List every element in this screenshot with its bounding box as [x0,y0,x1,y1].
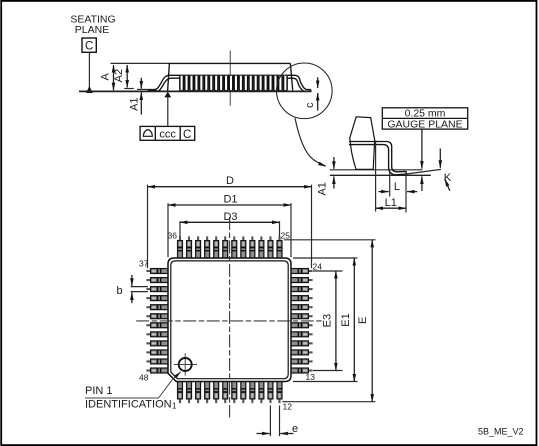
bottom row pins 1..12 [178,381,282,404]
datum C triangle [86,86,93,93]
svg-text:L1: L1 [385,197,397,209]
side view centerline [229,51,231,106]
svg-text:b: b [117,285,123,297]
dimension L [389,172,391,197]
dimension b [131,286,148,288]
flatness symbol [143,130,153,137]
right lead foot cap [310,90,312,92]
detail lead top line [349,142,406,172]
detail seating plane [330,174,431,176]
gauge 0.25 stem [421,129,423,169]
detail lead tip cap [405,171,407,174]
side view body left edge [168,63,170,91]
svg-text:GAUGE PLANE: GAUGE PLANE [387,119,462,131]
svg-text:C: C [85,41,93,53]
lead row top line [168,74,295,76]
detail body cross-section [350,117,375,170]
svg-text:PLANE: PLANE [75,24,109,36]
svg-text:A1: A1 [317,182,329,195]
dimension e [269,406,271,437]
detail lead bottom line [349,145,406,175]
right gull-wing lead top surface [295,75,311,89]
svg-text:12: 12 [283,402,293,412]
lead row shoulder line [171,77,294,79]
dimension A1 detail [333,157,335,169]
svg-text:36: 36 [168,231,178,241]
side view leads comb [180,76,287,91]
side view body top [169,62,291,64]
svg-text:e: e [292,423,298,435]
svg-text:PIN 1: PIN 1 [85,385,113,397]
dimension A [113,65,115,90]
left row pins 37..48 [146,269,169,373]
svg-text:A2: A2 [113,69,125,82]
svg-text:E: E [357,317,369,324]
svg-text:E1: E1 [340,313,352,326]
dimension D1 [167,203,169,257]
dimension E3 [313,270,343,272]
svg-text:A1: A1 [128,97,140,110]
svg-text:1: 1 [172,401,177,410]
dimension D3 [179,221,181,237]
dimension E [284,239,376,241]
side view body right edge [290,63,292,90]
dimension E1 [293,257,358,259]
datum C stem [88,52,90,87]
svg-text:c: c [304,102,316,108]
package body inner outline [171,261,288,379]
K slant extension [406,169,441,174]
datum triangle at ccc [164,92,171,98]
dimension c [317,77,319,88]
svg-text:C: C [183,129,191,141]
svg-text:IDENTIFICATION: IDENTIFICATION [85,398,172,410]
svg-text:37: 37 [139,259,149,269]
svg-text:L: L [394,181,400,193]
package body outline [168,258,291,382]
svg-text:K: K [444,172,452,184]
svg-text:5B_ME_V2: 5B_ME_V2 [478,426,524,436]
top row pins 36..25 [178,236,282,259]
svg-text:ccc: ccc [159,128,176,140]
dimension D [147,185,149,269]
left gull-wing lead top surface [148,75,169,89]
svg-text:13: 13 [306,372,316,382]
left gull-wing lead bottom surface [148,78,172,91]
datum C box [82,38,96,53]
svg-text:25: 25 [281,231,291,241]
svg-text:48: 48 [139,373,149,383]
gauge plane line [330,169,423,171]
dimension K [439,149,441,168]
detail circle [277,63,333,119]
right row pins 24..13 [290,269,313,373]
svg-text:D1: D1 [223,193,237,205]
right gull-wing lead bottom surface [293,78,311,91]
ccc feature control frame [140,126,195,140]
svg-text:E3: E3 [322,314,334,327]
left lead foot cap [147,90,149,92]
dimension A2 [126,65,128,88]
left lead foot fill [148,90,157,92]
seating plane line [79,90,312,92]
svg-text:24: 24 [313,262,323,272]
dimension A1 side view [140,78,142,89]
side view top extension line [111,62,170,64]
detail leader curve [295,118,326,166]
pin 1 leader [85,372,181,398]
svg-text:D: D [226,175,234,187]
pin 1 identification circle [174,353,197,375]
svg-text:A: A [99,72,111,80]
horizontal centerline [136,320,323,322]
dimension L1 [375,141,377,212]
ccc frame stem [167,97,169,126]
gauge plane box [382,108,467,129]
svg-text:D3: D3 [223,211,237,223]
vertical centerline [229,217,231,418]
